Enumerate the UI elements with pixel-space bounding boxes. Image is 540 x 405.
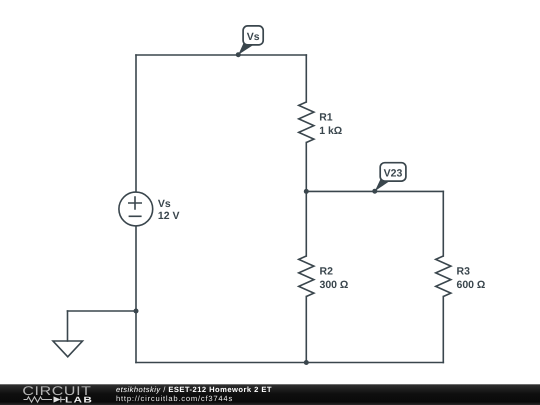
resistor R1 — [299, 102, 314, 143]
svg-text:R2: R2 — [320, 266, 334, 278]
node flag V23 tail — [375, 178, 389, 191]
wire R2 branch lower — [305, 297, 307, 363]
CircuitLab logo text CIRCUIT — [22, 384, 91, 398]
node flag V23 box — [380, 163, 406, 181]
voltage source V1 (Vs) — [119, 192, 153, 226]
svg-text:etsikhotskiy / ESET-212 Homewo: etsikhotskiy / ESET-212 Homework 2 ET — [116, 385, 272, 394]
svg-text:R1: R1 — [319, 112, 333, 124]
svg-text:LAB: LAB — [65, 394, 93, 404]
wire R3 branch lower — [442, 297, 444, 363]
wire R1 branch lower to mid node — [305, 143, 307, 192]
wire ground stub horizontal — [68, 310, 137, 312]
wire left branch lower (Vs bottom through ground junction to bottom corner) — [135, 226, 137, 363]
wire R2 branch upper — [305, 191, 307, 256]
svg-text:R3: R3 — [457, 266, 471, 278]
junction dot mid node (R1/R2) — [304, 189, 309, 194]
svg-text:600 Ω: 600 Ω — [457, 279, 486, 291]
wire R1 branch upper — [305, 55, 307, 102]
resistor R3 — [436, 256, 451, 297]
wire top from left branch to R1 branch — [136, 54, 306, 56]
svg-text:12 V: 12 V — [158, 210, 180, 222]
svg-text:Vs: Vs — [158, 198, 171, 210]
node flag Vs box — [243, 26, 263, 45]
junction dot node Vs anchor — [236, 52, 241, 57]
svg-text:http://circuitlab.com/cf3744s: http://circuitlab.com/cf3744s — [116, 394, 233, 403]
node flag Vs tail — [238, 42, 252, 55]
wire ground stub vertical — [67, 311, 69, 341]
ground — [53, 341, 83, 357]
junction dot bottom node (R2/bottom wire) — [304, 360, 309, 365]
resistor R2 — [299, 256, 314, 297]
CircuitLab logo text LAB — [65, 394, 93, 404]
CircuitLab logo diode triangle — [54, 396, 61, 402]
wire left branch upper (Vs top to top-left corner) — [135, 55, 137, 192]
svg-text:300 Ω: 300 Ω — [320, 279, 349, 291]
svg-text:1 kΩ: 1 kΩ — [319, 125, 342, 137]
wire bottom from left corner to R3 branch — [136, 362, 443, 364]
wire R3 branch upper — [442, 191, 444, 256]
svg-text:V23: V23 — [384, 168, 403, 180]
junction dot ground junction — [134, 309, 139, 314]
junction dot node V23 anchor — [372, 189, 377, 194]
CircuitLab logo wire with resistor and diode — [24, 397, 66, 403]
wire middle from mid node to R3 branch — [306, 190, 443, 192]
svg-text:Vs: Vs — [247, 31, 260, 43]
